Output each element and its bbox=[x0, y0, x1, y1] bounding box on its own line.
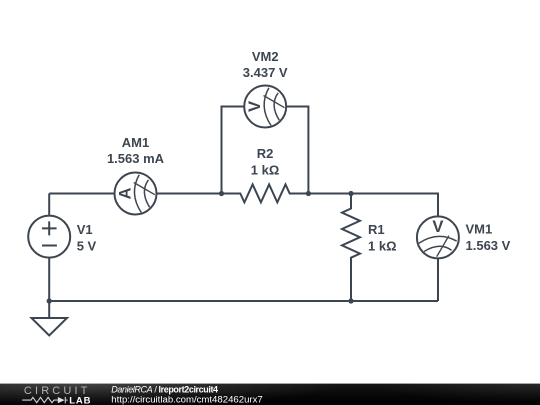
svg-text:AM1: AM1 bbox=[122, 135, 149, 150]
svg-text:5 V: 5 V bbox=[77, 238, 97, 253]
svg-text:LAB: LAB bbox=[69, 395, 91, 405]
svg-text:3.437 V: 3.437 V bbox=[243, 65, 288, 80]
svg-text:V1: V1 bbox=[77, 222, 93, 237]
svg-text:1.563 V: 1.563 V bbox=[466, 238, 511, 253]
svg-text:http://circuitlab.com/cmt48246: http://circuitlab.com/cmt482462urx7 bbox=[111, 394, 262, 405]
svg-text:R2: R2 bbox=[257, 146, 274, 161]
svg-text:V: V bbox=[245, 101, 264, 112]
svg-text:R1: R1 bbox=[368, 222, 385, 237]
svg-text:A: A bbox=[117, 187, 135, 199]
svg-text:1.563 mA: 1.563 mA bbox=[107, 151, 165, 166]
svg-text:VM1: VM1 bbox=[466, 222, 493, 237]
svg-text:VM2: VM2 bbox=[252, 49, 279, 64]
svg-text:1 kΩ: 1 kΩ bbox=[368, 238, 397, 253]
svg-text:DanielRCA / lreport2circuit4: DanielRCA / lreport2circuit4 bbox=[111, 384, 218, 394]
svg-text:1 kΩ: 1 kΩ bbox=[251, 162, 280, 177]
svg-text:V: V bbox=[432, 217, 443, 236]
